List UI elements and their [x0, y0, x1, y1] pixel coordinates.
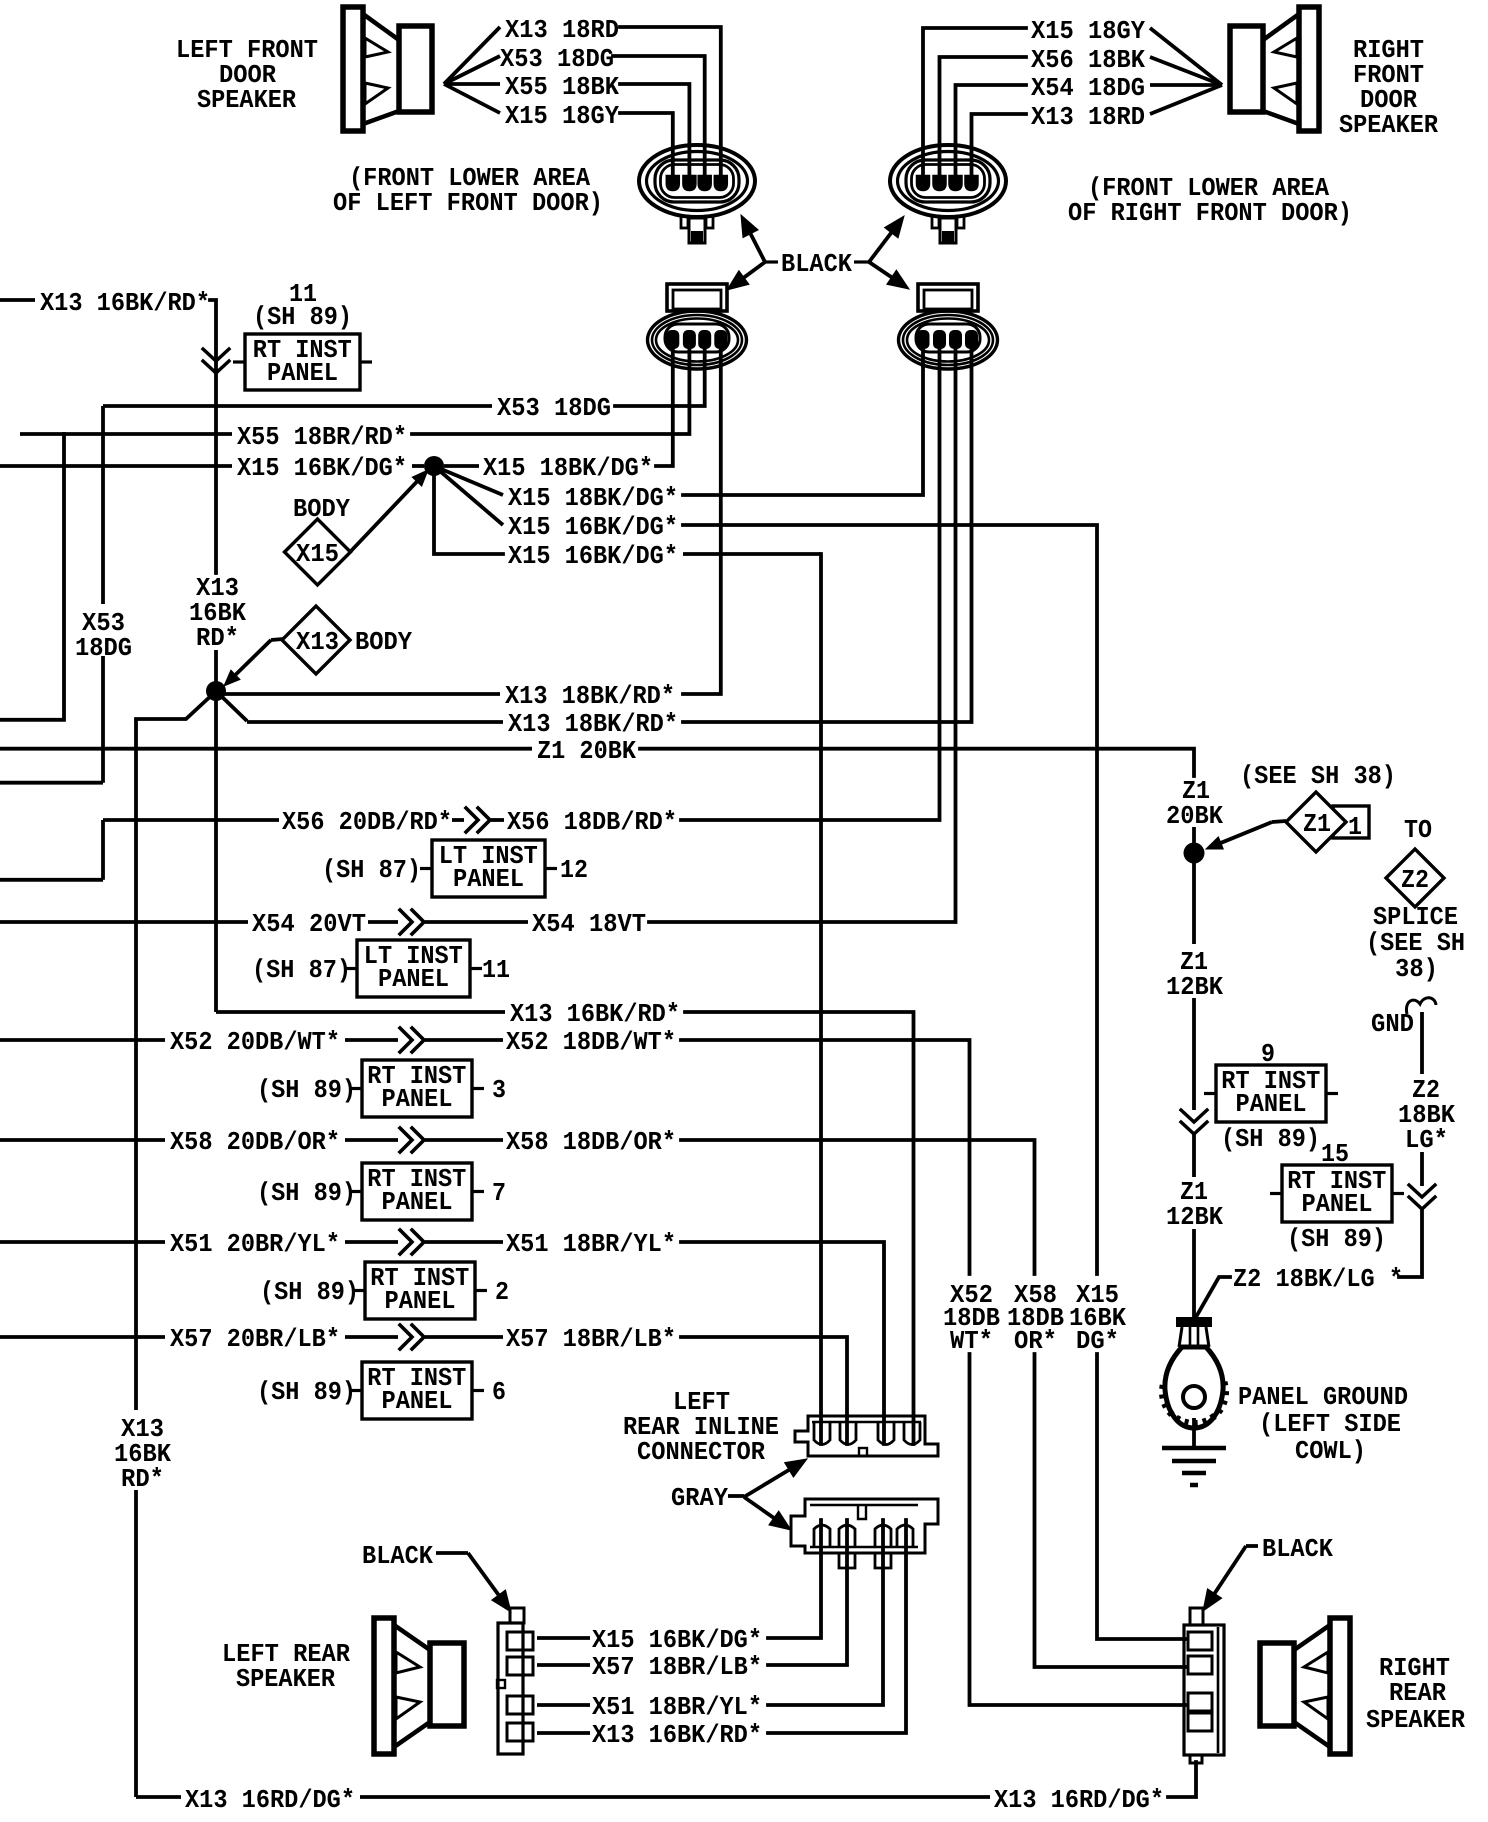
svg-text:Z2 18BK/LG *: Z2 18BK/LG * [1233, 1264, 1403, 1294]
svg-text:PANEL: PANEL [267, 358, 338, 388]
svg-text:BLACK: BLACK [362, 1541, 433, 1571]
svg-text:SPEAKER: SPEAKER [1339, 110, 1438, 140]
svg-text:3: 3 [492, 1075, 506, 1105]
svg-text:X15 18GY: X15 18GY [1031, 16, 1145, 46]
svg-text:38): 38) [1395, 954, 1438, 984]
svg-text:6: 6 [492, 1377, 506, 1407]
svg-text:OR*: OR* [1014, 1326, 1057, 1356]
svg-text:X13 16BK/RD*: X13 16BK/RD* [510, 999, 680, 1029]
svg-text:RD*: RD* [121, 1464, 164, 1494]
svg-text:X51 18BR/YL*: X51 18BR/YL* [592, 1692, 762, 1722]
svg-text:X13 16RD/DG*: X13 16RD/DG* [185, 1785, 355, 1815]
svg-text:PANEL: PANEL [385, 1286, 456, 1316]
svg-text:1: 1 [1348, 812, 1362, 842]
svg-text:GND: GND [1371, 1009, 1414, 1039]
svg-text:X13 18BK/RD*: X13 18BK/RD* [508, 709, 678, 739]
svg-text:X51 20BR/YL*: X51 20BR/YL* [170, 1229, 340, 1259]
svg-text:SPEAKER: SPEAKER [197, 85, 296, 115]
svg-text:X52 20DB/WT*: X52 20DB/WT* [170, 1027, 340, 1057]
svg-text:Z1 20BK: Z1 20BK [537, 736, 636, 766]
svg-text:X55 18BR/RD*: X55 18BR/RD* [237, 422, 407, 452]
svg-text:LG*: LG* [1405, 1125, 1448, 1155]
svg-text:(SEE SH 38): (SEE SH 38) [1240, 761, 1396, 791]
svg-text:(SH 89): (SH 89) [257, 1075, 356, 1105]
svg-text:X15: X15 [296, 539, 339, 569]
svg-text:(SH 89): (SH 89) [260, 1277, 359, 1307]
svg-text:(LEFT SIDE: (LEFT SIDE [1259, 1409, 1401, 1439]
svg-text:OF LEFT FRONT DOOR): OF LEFT FRONT DOOR) [333, 188, 603, 218]
svg-text:11: 11 [482, 955, 510, 985]
svg-text:RD*: RD* [196, 623, 239, 653]
svg-text:(SH 87): (SH 87) [322, 855, 421, 885]
svg-text:PANEL: PANEL [453, 864, 524, 894]
svg-text:12BK: 12BK [1166, 972, 1223, 1002]
svg-text:(SH 87): (SH 87) [252, 955, 351, 985]
svg-text:X15 16BK/DG*: X15 16BK/DG* [508, 512, 678, 542]
svg-text:(SH 89): (SH 89) [1287, 1224, 1386, 1254]
svg-text:DG*: DG* [1076, 1326, 1119, 1356]
svg-text:X56 18BK: X56 18BK [1031, 45, 1145, 75]
svg-text:PANEL: PANEL [382, 1187, 453, 1217]
svg-text:TO: TO [1404, 815, 1432, 845]
svg-text:PANEL: PANEL [382, 1386, 453, 1416]
svg-text:SPEAKER: SPEAKER [1366, 1705, 1465, 1735]
svg-text:15: 15 [1321, 1139, 1349, 1169]
svg-text:PANEL: PANEL [378, 964, 449, 994]
svg-text:X57 20BR/LB*: X57 20BR/LB* [170, 1324, 340, 1354]
svg-text:BODY: BODY [293, 494, 350, 524]
svg-text:(SH 89): (SH 89) [1221, 1124, 1320, 1154]
svg-text:SPEAKER: SPEAKER [236, 1664, 335, 1694]
svg-text:X54 18DG: X54 18DG [1031, 73, 1145, 103]
svg-text:X15 18BK/DG*: X15 18BK/DG* [508, 483, 678, 513]
svg-text:18DG: 18DG [75, 633, 132, 663]
svg-text:X13: X13 [296, 627, 339, 657]
svg-text:X13 16BK/RD*: X13 16BK/RD* [40, 288, 210, 318]
svg-text:7: 7 [492, 1178, 506, 1208]
svg-text:X57 18BR/LB*: X57 18BR/LB* [592, 1652, 762, 1682]
svg-text:X51 18BR/YL*: X51 18BR/YL* [506, 1229, 676, 1259]
svg-text:20BK: 20BK [1166, 801, 1223, 831]
svg-text:PANEL: PANEL [382, 1084, 453, 1114]
svg-text:GRAY: GRAY [671, 1483, 728, 1513]
svg-text:X15 16BK/DG*: X15 16BK/DG* [592, 1625, 762, 1655]
svg-text:PANEL GROUND: PANEL GROUND [1238, 1382, 1408, 1412]
svg-text:X58 20DB/OR*: X58 20DB/OR* [170, 1127, 340, 1157]
svg-text:BODY: BODY [355, 627, 412, 657]
svg-text:X56 18DB/RD*: X56 18DB/RD* [507, 807, 677, 837]
svg-text:9: 9 [1261, 1039, 1275, 1069]
svg-text:OF RIGHT FRONT DOOR): OF RIGHT FRONT DOOR) [1068, 198, 1352, 228]
svg-text:12BK: 12BK [1166, 1202, 1223, 1232]
svg-text:(SH 89): (SH 89) [257, 1178, 356, 1208]
svg-text:BLACK: BLACK [781, 249, 852, 279]
svg-text:WT*: WT* [950, 1326, 993, 1356]
svg-text:BLACK: BLACK [1262, 1534, 1333, 1564]
svg-text:Z2: Z2 [1401, 865, 1429, 895]
svg-text:12: 12 [560, 855, 588, 885]
svg-text:X52 18DB/WT*: X52 18DB/WT* [506, 1027, 676, 1057]
svg-text:(SH 89): (SH 89) [257, 1377, 356, 1407]
svg-text:X56 20DB/RD*: X56 20DB/RD* [282, 807, 452, 837]
svg-text:X54 20VT: X54 20VT [252, 909, 366, 939]
svg-text:X13 18BK/RD*: X13 18BK/RD* [505, 681, 675, 711]
svg-text:X15 18BK/DG*: X15 18BK/DG* [483, 453, 653, 483]
svg-text:X55 18BK: X55 18BK [505, 72, 619, 102]
svg-text:X13 18RD: X13 18RD [505, 15, 619, 45]
svg-text:X15 16BK/DG*: X15 16BK/DG* [508, 541, 678, 571]
svg-text:X58 18DB/OR*: X58 18DB/OR* [506, 1127, 676, 1157]
svg-text:X13 16RD/DG*: X13 16RD/DG* [994, 1785, 1164, 1815]
svg-text:X15 16BK/DG*: X15 16BK/DG* [237, 453, 407, 483]
svg-text:PANEL: PANEL [1236, 1089, 1307, 1119]
svg-text:X13 16BK/RD*: X13 16BK/RD* [592, 1720, 762, 1750]
svg-text:PANEL: PANEL [1302, 1189, 1373, 1219]
svg-text:CONNECTOR: CONNECTOR [637, 1437, 765, 1467]
svg-text:(SH 89): (SH 89) [253, 302, 352, 332]
svg-text:2: 2 [495, 1277, 509, 1307]
svg-text:X54 18VT: X54 18VT [532, 909, 646, 939]
svg-text:X53 18DG: X53 18DG [497, 393, 611, 423]
svg-text:Z1: Z1 [1303, 809, 1331, 839]
svg-text:X53 18DG: X53 18DG [500, 44, 614, 74]
svg-text:COWL): COWL) [1295, 1436, 1366, 1466]
svg-text:X15 18GY: X15 18GY [505, 101, 619, 131]
svg-text:X13 18RD: X13 18RD [1031, 102, 1145, 132]
svg-text:X57 18BR/LB*: X57 18BR/LB* [506, 1324, 676, 1354]
svg-text:REAR: REAR [1389, 1678, 1446, 1708]
